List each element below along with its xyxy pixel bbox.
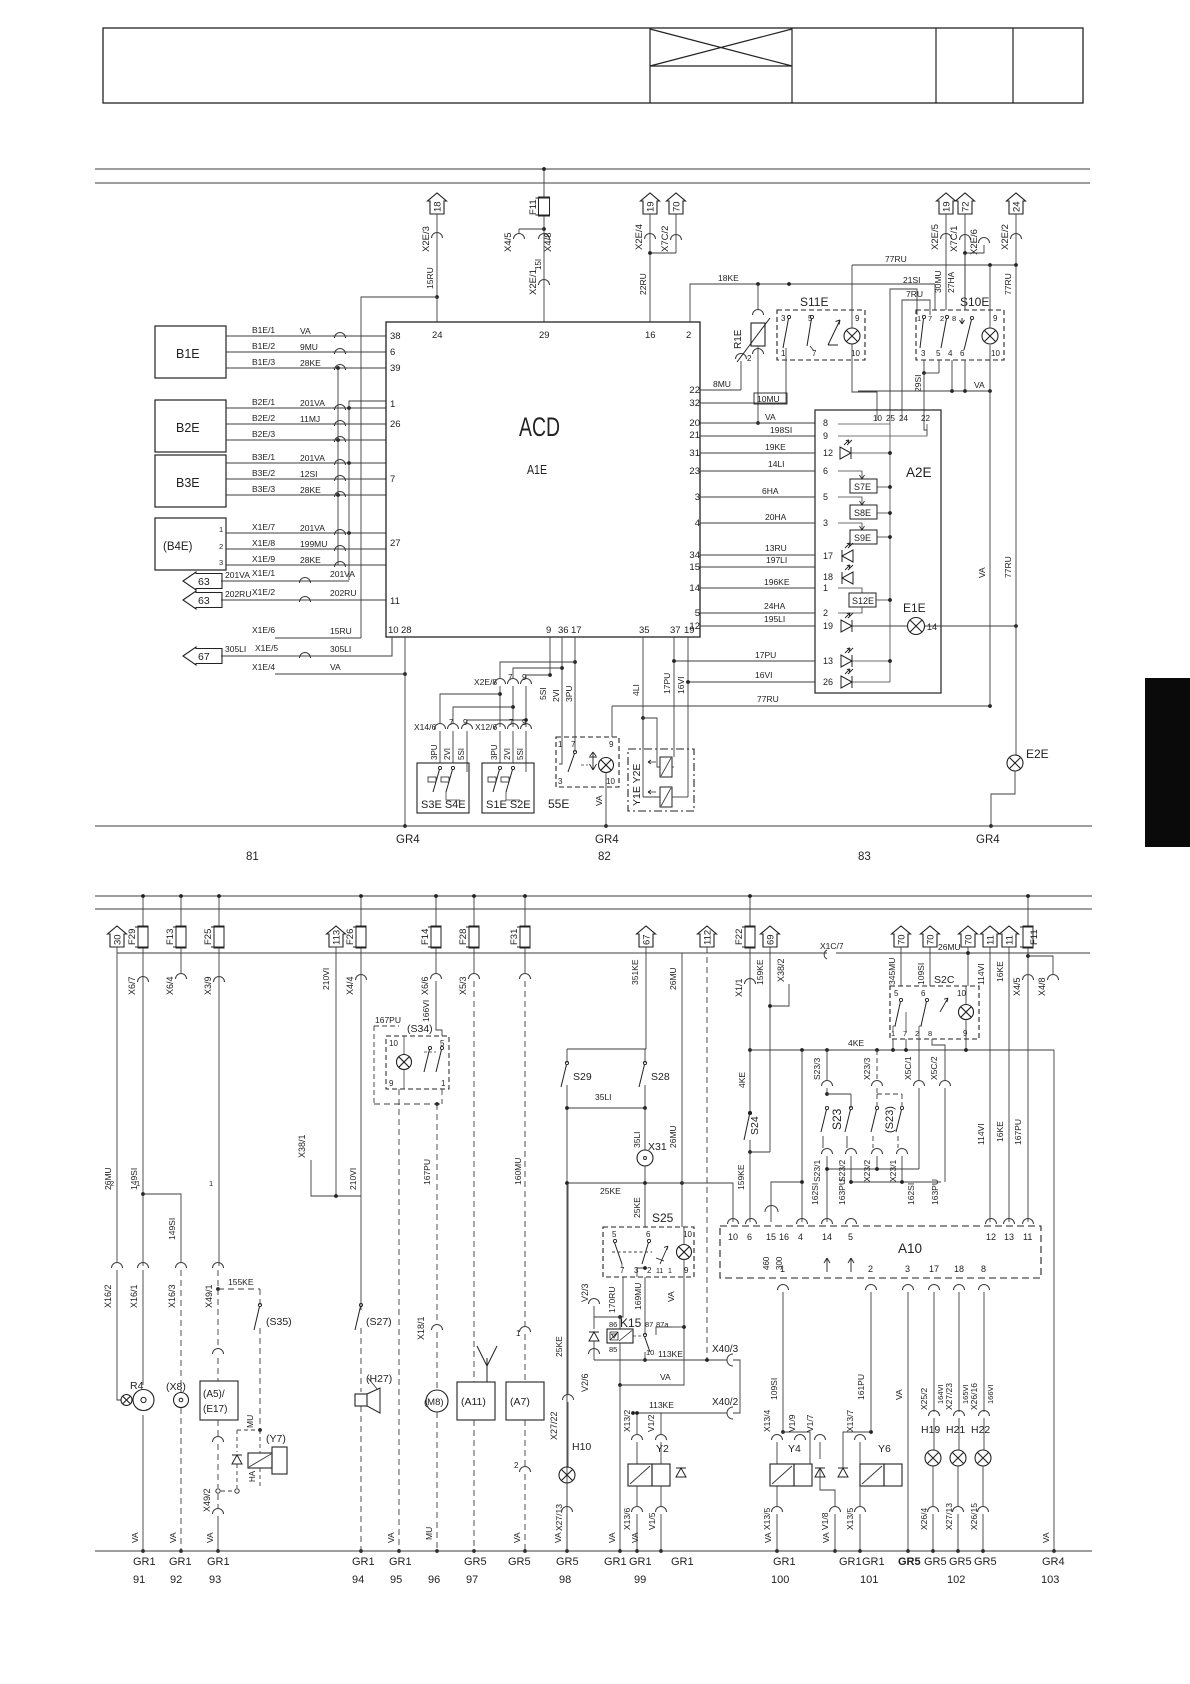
module A5 E17 <box>200 1381 238 1420</box>
svg-text:B3E: B3E <box>176 476 200 490</box>
svg-text:9: 9 <box>963 1029 968 1038</box>
svg-text:35LI: 35LI <box>632 1131 642 1148</box>
svg-text:X23/3: X23/3 <box>862 1058 872 1080</box>
svg-text:B1E/3: B1E/3 <box>252 357 275 367</box>
wire X1E/7 201VA <box>226 532 386 534</box>
lower ground rail <box>95 1550 1092 1552</box>
connector X5/3 <box>469 974 480 980</box>
svg-text:B2E/1: B2E/1 <box>252 397 275 407</box>
wire X5C/1 <box>918 1039 920 1080</box>
wire 196KE pin14 <box>700 587 815 589</box>
relay S12E <box>838 588 862 593</box>
switch S34 blade <box>428 1046 431 1049</box>
svg-text:15RU: 15RU <box>330 626 352 636</box>
wire X49 down <box>217 1289 219 1348</box>
svg-text:2: 2 <box>823 608 828 618</box>
svg-text:X1C/7: X1C/7 <box>820 941 844 951</box>
svg-text:77RU: 77RU <box>1003 273 1013 295</box>
wire S25 pin7 to K15 <box>620 1277 623 1317</box>
svg-text:GR5: GR5 <box>974 1556 997 1568</box>
svg-text:77RU: 77RU <box>885 254 907 264</box>
off-page arrow 18 <box>428 193 447 214</box>
control unit A10 <box>720 1226 1041 1278</box>
wire VA S25 lamp <box>620 1277 684 1385</box>
svg-text:GR5: GR5 <box>556 1556 579 1568</box>
switch S10E c with arrows <box>960 318 965 324</box>
wire 345MU <box>900 947 902 986</box>
svg-text:Y4: Y4 <box>788 1443 801 1455</box>
connector X2E/3 <box>436 214 438 297</box>
svg-text:F31: F31 <box>509 929 520 945</box>
svg-text:6: 6 <box>823 466 828 476</box>
A2E internal column 25 <box>889 410 891 682</box>
svg-text:S2C: S2C <box>934 974 955 986</box>
svg-text:4: 4 <box>798 1232 803 1242</box>
svg-text:9: 9 <box>993 314 998 323</box>
connector S23/1 <box>822 1136 824 1148</box>
wire B2E/1 201VA <box>226 407 386 409</box>
svg-text:28KE: 28KE <box>300 555 321 565</box>
svg-text:GR1: GR1 <box>604 1556 627 1568</box>
svg-text:99: 99 <box>634 1574 646 1586</box>
wire VA right column <box>1053 1050 1055 1551</box>
svg-text:X6/7: X6/7 <box>127 976 137 995</box>
svg-text:2: 2 <box>686 330 691 341</box>
connector S23/2 <box>846 1136 848 1148</box>
svg-text:9: 9 <box>522 673 527 682</box>
svg-text:10: 10 <box>957 989 966 998</box>
svg-text:S28: S28 <box>651 1071 670 1083</box>
wire 161PU to Y6 <box>870 1292 872 1432</box>
switch S2C b <box>925 998 928 1001</box>
A2E pin24 internal <box>901 410 903 420</box>
svg-text:24: 24 <box>1012 201 1023 212</box>
svg-text:5SI: 5SI <box>457 748 466 760</box>
wire 13RU pin34 <box>700 554 815 556</box>
svg-text:S23/1: S23/1 <box>812 1160 822 1182</box>
LED A2E 13 <box>841 655 852 667</box>
svg-text:X1E/5: X1E/5 <box>255 643 278 653</box>
svg-text:63: 63 <box>198 595 210 607</box>
wire 19KE pin31 <box>700 452 815 454</box>
lamp E2E <box>1007 755 1023 771</box>
wire S34 pin1 down <box>441 1089 443 1104</box>
svg-text:F25: F25 <box>203 929 214 945</box>
svg-text:160MU: 160MU <box>513 1158 523 1185</box>
svg-text:114VI: 114VI <box>976 963 986 985</box>
svg-text:9: 9 <box>823 431 828 441</box>
wire X1E/6 15RU <box>275 637 361 639</box>
switch unit S3E S4E <box>417 763 469 813</box>
wire 77RU upper <box>851 265 853 310</box>
svg-text:16VI: 16VI <box>755 670 773 680</box>
junction rings <box>216 1489 220 1493</box>
bus 28KE <box>337 368 339 565</box>
svg-text:167PU: 167PU <box>375 1015 401 1025</box>
fuse F25 <box>218 896 220 926</box>
svg-text:109SI: 109SI <box>769 1378 779 1400</box>
svg-text:S23/3: S23/3 <box>812 1058 822 1080</box>
svg-text:70: 70 <box>672 201 683 212</box>
wire pin15 16 <box>771 1182 802 1222</box>
svg-text:7: 7 <box>508 673 513 682</box>
svg-text:F11: F11 <box>1029 929 1040 945</box>
component B1E <box>155 326 226 378</box>
component B4E <box>155 518 226 570</box>
svg-text:34: 34 <box>689 550 700 561</box>
wire pin2 18KE <box>690 284 935 322</box>
wire B1E/1 VA <box>226 335 386 337</box>
svg-text:11: 11 <box>1023 1232 1032 1242</box>
svg-text:9: 9 <box>546 625 551 636</box>
svg-text:14: 14 <box>689 583 700 594</box>
svg-text:Y2: Y2 <box>656 1443 669 1455</box>
svg-text:H19: H19 <box>921 1424 940 1436</box>
thermistor R1E <box>757 284 759 309</box>
wire B3E/2 12SI <box>226 478 386 480</box>
svg-text:77RU: 77RU <box>1003 556 1013 578</box>
wire VA row S10E <box>858 390 990 392</box>
wire 24HA pin5 <box>700 612 815 614</box>
svg-text:3PU: 3PU <box>430 744 439 760</box>
wire pin10 down <box>391 637 393 656</box>
switch 55E <box>556 737 619 787</box>
wire pin9 5SI <box>549 637 551 675</box>
svg-text:16KE: 16KE <box>995 1121 1005 1142</box>
connector X23/1 <box>897 1136 899 1148</box>
svg-text:166VI: 166VI <box>421 1000 431 1022</box>
svg-text:GR5: GR5 <box>949 1556 972 1568</box>
svg-text:77RU: 77RU <box>757 694 779 704</box>
switch S25 a <box>613 1239 616 1242</box>
svg-text:X49/2: X49/2 <box>202 1488 212 1512</box>
svg-text:5: 5 <box>848 1232 853 1242</box>
svg-text:9: 9 <box>463 718 468 727</box>
svg-text:F28: F28 <box>458 929 469 945</box>
svg-text:2: 2 <box>647 1266 652 1275</box>
wire 195LI pin12 <box>700 625 815 627</box>
lamp S11E <box>844 328 860 344</box>
wire 14LI pin23 <box>700 470 815 472</box>
svg-text:210VI: 210VI <box>348 1168 358 1190</box>
svg-text:GR5: GR5 <box>508 1556 531 1568</box>
connector X4/4 <box>356 975 367 981</box>
svg-text:26: 26 <box>823 677 833 687</box>
antenna A11 <box>477 1346 497 1382</box>
switch S25 b <box>647 1239 650 1242</box>
svg-text:4: 4 <box>948 349 953 358</box>
ECU ACD A1E box <box>386 322 700 637</box>
svg-text:18KE: 18KE <box>718 273 739 283</box>
svg-text:9: 9 <box>522 718 527 727</box>
svg-text:A10: A10 <box>898 1241 922 1256</box>
svg-text:X2E/8: X2E/8 <box>474 677 497 687</box>
svg-text:X13/7: X13/7 <box>845 1410 855 1432</box>
svg-text:B3E/2: B3E/2 <box>252 468 275 478</box>
svg-text:103: 103 <box>1041 1574 1059 1586</box>
connector X2E/2 <box>1015 214 1017 265</box>
connector X16/3 <box>176 1263 187 1269</box>
svg-text:X1E/2: X1E/2 <box>252 587 275 597</box>
svg-text:2: 2 <box>219 542 223 551</box>
connector X6/4 <box>176 974 187 980</box>
svg-text:163PU: 163PU <box>930 1179 940 1205</box>
wire 77RU column right <box>1015 265 1017 755</box>
lower feed rail <box>95 895 1092 897</box>
svg-text:1: 1 <box>390 399 395 410</box>
svg-text:1: 1 <box>823 583 828 593</box>
svg-text:161PU: 161PU <box>856 1374 866 1400</box>
wire K15 85 <box>619 1343 621 1385</box>
svg-text:X2E/4: X2E/4 <box>634 224 645 250</box>
switch unit S25 <box>603 1227 694 1277</box>
svg-text:35LI: 35LI <box>595 1092 612 1102</box>
svg-text:93: 93 <box>209 1574 221 1586</box>
svg-text:X13/5: X13/5 <box>762 1508 772 1530</box>
svg-text:X2E/6: X2E/6 <box>969 229 980 255</box>
svg-text:16: 16 <box>645 330 656 341</box>
svg-text:2: 2 <box>514 1461 519 1470</box>
svg-text:9: 9 <box>609 740 614 749</box>
svg-text:11: 11 <box>390 596 400 607</box>
fuse F28 <box>473 896 475 926</box>
svg-text:X2E/1: X2E/1 <box>528 269 539 295</box>
svg-text:98: 98 <box>559 1574 571 1586</box>
svg-text:30MU: 30MU <box>933 270 943 293</box>
svg-text:6HA: 6HA <box>762 486 779 496</box>
svg-text:V2/6: V2/6 <box>580 1373 590 1392</box>
svg-text:X40/3: X40/3 <box>712 1344 739 1355</box>
svg-text:VA: VA <box>300 326 311 336</box>
wire X5C/2 <box>932 1039 945 1080</box>
svg-text:3: 3 <box>558 777 563 786</box>
svg-text:2VI: 2VI <box>503 748 512 760</box>
svg-text:X13/2: X13/2 <box>622 1410 632 1432</box>
svg-text:5: 5 <box>823 492 828 502</box>
svg-text:(S23): (S23) <box>884 1106 896 1133</box>
switch S27 <box>359 1303 362 1306</box>
lamp S10E <box>982 328 998 344</box>
module A11 <box>457 1382 495 1420</box>
svg-text:GR5: GR5 <box>924 1556 947 1568</box>
wire X1E/4 VA <box>275 673 405 675</box>
svg-text:24: 24 <box>899 414 908 423</box>
svg-text:X25/2: X25/2 <box>919 1388 929 1410</box>
wire B3E/3 28KE <box>226 494 386 496</box>
svg-text:6: 6 <box>390 347 395 358</box>
svg-text:87a: 87a <box>656 1320 669 1329</box>
lamp S25 <box>677 1245 692 1260</box>
connector X2E/4 <box>649 214 651 322</box>
LED A2E 18 <box>842 572 853 584</box>
svg-text:26: 26 <box>390 419 401 430</box>
off-page arrow 113 <box>327 926 346 947</box>
bus 201VA <box>349 401 386 580</box>
A2E pin10 internal <box>876 410 878 420</box>
svg-text:17PU: 17PU <box>755 650 776 660</box>
svg-text:3: 3 <box>219 558 223 567</box>
svg-text:6: 6 <box>960 349 965 358</box>
svg-text:(A11): (A11) <box>461 1396 486 1408</box>
svg-text:X1E/4: X1E/4 <box>252 662 275 672</box>
svg-text:11: 11 <box>656 1268 663 1275</box>
svg-text:22RU: 22RU <box>638 273 648 295</box>
svg-text:5: 5 <box>936 349 941 358</box>
svg-text:1: 1 <box>781 349 786 358</box>
svg-text:VA: VA <box>821 1532 831 1543</box>
wire S2C pin9 down <box>965 1020 967 1050</box>
svg-text:VA: VA <box>894 1389 904 1400</box>
washer symbol 55E <box>589 752 597 770</box>
svg-text:VA: VA <box>763 1532 773 1543</box>
off-page arrow 19 <box>641 193 660 214</box>
svg-text:X26/16: X26/16 <box>969 1383 979 1410</box>
motor M8 <box>426 1390 448 1412</box>
lamp E1E <box>908 618 925 635</box>
wire X1E/2 202RU <box>221 599 386 601</box>
svg-text:X5C/1: X5C/1 <box>903 1056 913 1080</box>
svg-text:96: 96 <box>428 1574 440 1586</box>
svg-text:V1/2: V1/2 <box>646 1414 656 1432</box>
svg-text:(M8): (M8) <box>424 1397 444 1408</box>
svg-text:X49/1: X49/1 <box>204 1284 214 1308</box>
title block frame <box>103 28 1083 103</box>
wire pin36 2VI <box>561 637 563 737</box>
svg-text:25KE: 25KE <box>600 1186 621 1196</box>
svg-text:GR1: GR1 <box>671 1556 694 1568</box>
lamp 55E <box>599 758 614 773</box>
svg-text:155KE: 155KE <box>228 1277 254 1287</box>
svg-text:2: 2 <box>940 314 944 323</box>
switch S23 dashed a <box>875 1106 878 1109</box>
lamp S2C <box>959 1005 974 1020</box>
switchpack S11E <box>777 310 865 360</box>
svg-text:1: 1 <box>209 1179 213 1188</box>
connector X16/2 <box>112 1263 123 1269</box>
switch S11E 5-7 <box>810 315 813 318</box>
svg-text:2: 2 <box>868 1264 873 1274</box>
svg-text:X5/3: X5/3 <box>458 976 468 995</box>
svg-text:7: 7 <box>620 1266 625 1275</box>
svg-text:X23/2: X23/2 <box>862 1160 872 1182</box>
svg-text:S7E: S7E <box>854 482 871 492</box>
arrow symbol S11E <box>828 320 840 345</box>
svg-text:B3E/3: B3E/3 <box>252 484 275 494</box>
svg-text:10: 10 <box>991 349 1000 358</box>
svg-text:S29: S29 <box>573 1071 592 1083</box>
svg-text:9: 9 <box>684 1266 689 1275</box>
svg-text:VA: VA <box>512 1532 522 1543</box>
svg-text:X23/1: X23/1 <box>888 1160 898 1182</box>
svg-text:12: 12 <box>823 448 833 458</box>
svg-text:VA: VA <box>553 1532 563 1543</box>
svg-text:1: 1 <box>136 1179 140 1188</box>
svg-text:5: 5 <box>612 1230 617 1239</box>
svg-text:11: 11 <box>1005 935 1016 945</box>
wire K15 87a VA <box>671 1326 673 1328</box>
svg-text:7: 7 <box>903 1029 907 1038</box>
svg-text:16: 16 <box>779 1232 789 1242</box>
svg-text:GR1: GR1 <box>169 1556 192 1568</box>
switch S35 <box>258 1303 261 1306</box>
svg-text:25: 25 <box>886 414 895 423</box>
fuse F31 <box>524 896 526 926</box>
fuse F11 top <box>543 169 545 197</box>
svg-text:X27/13: X27/13 <box>554 1504 564 1531</box>
svg-text:H22: H22 <box>971 1424 990 1436</box>
svg-text:A1E: A1E <box>527 462 547 477</box>
svg-text:7RU: 7RU <box>906 289 923 299</box>
svg-text:S23/2: S23/2 <box>837 1160 847 1182</box>
svg-text:11: 11 <box>986 935 997 945</box>
connector X23/3 <box>872 1081 883 1087</box>
off-page arrow 24 <box>1007 193 1026 214</box>
svg-text:VA: VA <box>660 1372 671 1382</box>
svg-text:S23: S23 <box>830 1108 844 1130</box>
svg-text:23: 23 <box>689 466 700 477</box>
svg-text:S25: S25 <box>652 1211 674 1225</box>
gong S7E <box>838 471 862 479</box>
svg-text:3PU: 3PU <box>564 685 574 702</box>
switch S23 b <box>849 1106 852 1109</box>
svg-text:36: 36 <box>558 625 569 636</box>
svg-text:VA: VA <box>666 1291 676 1302</box>
diode Y2 right <box>676 1468 686 1477</box>
svg-text:72: 72 <box>961 201 972 212</box>
svg-text:8: 8 <box>928 1029 932 1038</box>
svg-text:24: 24 <box>432 330 443 341</box>
svg-text:F11: F11 <box>528 199 539 215</box>
wire B2E/2 11MJ <box>226 423 386 425</box>
off-page arrow 19 right <box>937 193 956 214</box>
switch S10E a <box>922 315 925 318</box>
svg-text:8: 8 <box>823 418 828 428</box>
wire 4KE <box>748 1048 752 1052</box>
svg-text:198SI: 198SI <box>770 425 792 435</box>
svg-text:1: 1 <box>917 314 921 323</box>
switch S29 <box>565 1061 568 1064</box>
svg-text:F13: F13 <box>165 929 176 945</box>
upper feed rail <box>95 168 1090 170</box>
svg-text:19KE: 19KE <box>765 442 786 452</box>
svg-text:14: 14 <box>927 622 937 632</box>
switch S24 <box>748 1111 751 1114</box>
svg-text:X1/1: X1/1 <box>734 978 744 997</box>
wire 55E VA down <box>605 773 607 826</box>
svg-text:100: 100 <box>771 1574 789 1586</box>
connector A5 bottom arc <box>213 1437 224 1443</box>
wire pin19 16VI down <box>687 637 689 797</box>
svg-text:83: 83 <box>858 851 871 863</box>
svg-text:85: 85 <box>609 1345 617 1354</box>
svg-text:B1E: B1E <box>176 347 200 361</box>
svg-text:7: 7 <box>390 474 395 485</box>
svg-text:21: 21 <box>689 430 700 441</box>
svg-text:10: 10 <box>873 414 882 423</box>
diode Y7 <box>232 1455 242 1464</box>
off-page arrow 11 b <box>1000 926 1019 947</box>
off-page arrow 69 <box>761 926 780 947</box>
wire 26MU column <box>681 953 683 1227</box>
svg-text:(S34): (S34) <box>407 1023 433 1035</box>
svg-text:18: 18 <box>954 1264 964 1274</box>
svg-text:X3/9: X3/9 <box>203 976 213 995</box>
wire 197LI pin15 <box>700 566 815 568</box>
svg-text:102: 102 <box>947 1574 965 1586</box>
svg-text:87: 87 <box>645 1320 653 1329</box>
svg-text:(S27): (S27) <box>366 1316 392 1328</box>
svg-text:20: 20 <box>689 418 700 429</box>
